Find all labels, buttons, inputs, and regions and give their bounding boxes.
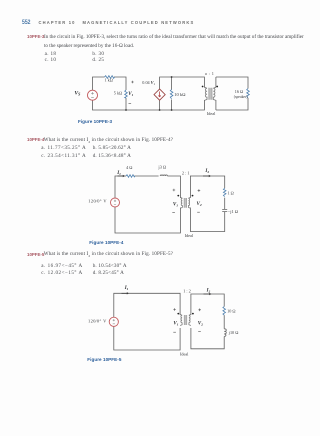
problem label 10PFE-5	[27, 253, 44, 257]
V1 minus mark (fig4)	[172, 211, 175, 213]
option c. 23.54&lt;11.31 A	[41, 154, 86, 159]
svg-text:VS: VS	[74, 90, 81, 96]
svg-text:a : 1: a : 1	[205, 71, 214, 76]
svg-text:0.04 V1: 0.04 V1	[142, 80, 155, 86]
svg-text:1 Ω: 1 Ω	[228, 190, 234, 195]
transformer T3 secondary winding (fig5)	[189, 314, 191, 325]
wire 5k branch bottom	[125, 98, 127, 110]
wire middle bottom rail	[160, 100, 205, 110]
transformer T3 secondary polarity dot	[192, 313, 194, 315]
wire fig5 secondary loop (10-ohm, j10)	[191, 294, 224, 349]
svg-text:120⁄0° V: 120⁄0° V	[88, 199, 107, 204]
transformer T2 secondary polarity dot	[192, 195, 194, 197]
transformer T3 primary polarity dot	[177, 313, 179, 315]
transformer T2 primary winding (fig4)	[180, 197, 182, 208]
page number 552	[22, 20, 30, 26]
svg-text:V2: V2	[197, 202, 202, 207]
svg-text:V2: V2	[198, 321, 203, 326]
junction node: 10k at top rail	[171, 76, 173, 78]
resistor 10 kOhm (shunt, fig3)	[170, 90, 173, 99]
V1 plus mark (fig4)	[173, 189, 176, 192]
option d. 8.25&lt;45 A	[93, 271, 124, 276]
resistor 16 Ohm speaker load (fig3 right)	[247, 89, 250, 98]
svg-text:Ideal: Ideal	[207, 111, 216, 116]
problem 10PFE-5 statement	[44, 252, 173, 259]
transformer T2 secondary winding (fig4)	[188, 197, 190, 208]
svg-text:4 Ω: 4 Ω	[126, 165, 132, 170]
option a. 11.77&lt;35.25 A	[41, 146, 86, 151]
option b. 5.85&lt;20.62 A	[93, 146, 131, 151]
current arrow I1 (fig5)	[122, 292, 128, 294]
V2 plus mark (fig4)	[198, 189, 201, 192]
junction node: dep source at bottom rail	[159, 109, 161, 111]
caption Figure 10PFE-3	[78, 120, 112, 125]
caption Figure 10PFE-4	[89, 241, 123, 246]
transformer T3 primary winding (fig5)	[180, 314, 182, 325]
svg-text:V1: V1	[173, 202, 178, 207]
problem 10PFE-4 statement	[44, 138, 173, 145]
svg-text:I2: I2	[204, 169, 209, 174]
wire fig5 primary loop (source to transformer)	[114, 293, 180, 350]
inductor j10 Ohm (fig5)	[224, 329, 226, 337]
option b. 30	[92, 52, 104, 57]
svg-text:V1: V1	[173, 321, 178, 326]
caption Figure 10PFE-5	[87, 358, 121, 363]
current arrow I2 (fig4)	[203, 175, 209, 177]
svg-text:10 Ω: 10 Ω	[227, 309, 235, 314]
option d. 15.36&lt;8.48 A	[93, 154, 131, 159]
wire secondary loop (to 16-ohm speaker)	[216, 77, 248, 110]
svg-text:Ideal: Ideal	[185, 233, 194, 238]
transformer T1 core (fig3)	[209, 88, 213, 100]
svg-text:V1: V1	[128, 92, 133, 97]
transformer T1 secondary polarity dot	[216, 86, 218, 88]
svg-text:1 kΩ: 1 kΩ	[105, 78, 113, 83]
problem 10PFE-3 statement line 2	[44, 44, 134, 49]
wire Vs bottom rail (left loop bottom)	[93, 100, 160, 110]
junction node: 10k at bottom rail	[171, 109, 173, 111]
resistor 4 Ohm (fig4)	[126, 175, 135, 178]
junction node: 5k at bottom rail	[125, 109, 127, 111]
option a. 16.97&lt;-45 A	[41, 264, 82, 269]
svg-text:2 : 1: 2 : 1	[182, 170, 190, 175]
dependent current source 0.04 V1 (diamond, fig3)	[154, 89, 165, 100]
option d. 25	[92, 58, 104, 63]
resistor 1 kOhm (series, fig3 top)	[105, 76, 115, 79]
wire Vs top to 1k to node A (left loop top)	[93, 77, 127, 90]
V1 plus mark (fig5)	[173, 308, 176, 311]
svg-text:1 : 2: 1 : 2	[183, 289, 191, 294]
running head: chapter title	[39, 21, 195, 25]
V1 minus mark (fig3)	[129, 102, 132, 104]
svg-text:j3 Ω: j3 Ω	[157, 164, 167, 169]
wire fig4 primary loop (source, 4-ohm, j3, transformer)	[115, 176, 180, 233]
dependent source arrow (down)	[159, 92, 161, 98]
resistor 5 kOhm (shunt, fig3)	[125, 90, 128, 98]
source Vs polarity marks	[91, 92, 94, 98]
option c. 10	[45, 58, 57, 63]
source polarity marks (fig4)	[114, 200, 116, 205]
wire dep-source corner to transformer (middle top)	[160, 77, 205, 89]
problem label 10PFE-4	[27, 138, 44, 142]
svg-text:I2: I2	[206, 289, 211, 294]
svg-text:Ideal: Ideal	[180, 352, 189, 357]
transformer T2 primary polarity dot	[177, 195, 179, 197]
option c. 12.02&lt;-15 A	[41, 271, 82, 276]
svg-text:5 kΩ: 5 kΩ	[114, 91, 122, 96]
capacitor -j1 Ohm (fig4)	[222, 209, 227, 211]
current arrow I1 (fig4)	[118, 175, 124, 177]
source polarity marks (fig5)	[113, 319, 115, 324]
problem 10PFE-3 statement line 1	[44, 35, 304, 40]
transformer T2 core (fig4)	[184, 198, 187, 208]
V1 plus mark (fig3)	[131, 81, 134, 84]
transformer T1 secondary winding (fig3)	[213, 87, 216, 100]
svg-text:16 Ω: 16 Ω	[235, 89, 243, 94]
resistor 1 Ohm (fig4)	[223, 188, 226, 196]
voltage source Vs (fig3)	[88, 90, 98, 100]
option b. 10.54&lt;30 A	[93, 264, 127, 269]
wire fig4 secondary loop (1-ohm, -j1 cap)	[190, 176, 224, 232]
V2 minus mark (fig5)	[198, 331, 201, 333]
current arrow I2 (fig5)	[204, 293, 210, 295]
V1 minus mark (fig5)	[173, 331, 176, 333]
svg-text:120⁄0° V: 120⁄0° V	[88, 318, 107, 323]
svg-text:−j1 Ω: −j1 Ω	[228, 209, 239, 214]
transformer T1 primary polarity dot	[202, 86, 204, 88]
inductor j3 Ohm (fig4)	[160, 175, 167, 176]
svg-text:j10 Ω: j10 Ω	[228, 330, 239, 335]
svg-text:10 kΩ: 10 kΩ	[174, 92, 186, 97]
transformer T3 core (fig5)	[184, 315, 187, 325]
voltage source 120/0 V (fig4)	[111, 198, 120, 207]
V2 plus mark (fig5)	[198, 309, 201, 312]
wire 10k branch	[171, 77, 173, 110]
V2 minus mark (fig4)	[197, 211, 200, 213]
option a. 18	[45, 52, 57, 57]
svg-text:I1: I1	[116, 171, 121, 176]
svg-text:I1: I1	[124, 286, 129, 291]
resistor 10 Ohm (fig5)	[223, 307, 226, 316]
problem label 10PFE-3	[27, 35, 44, 39]
voltage source 120/0 V (fig5)	[109, 317, 118, 326]
transformer T1 primary winding (fig3)	[204, 87, 207, 100]
svg-text:(speaker): (speaker)	[234, 95, 248, 99]
